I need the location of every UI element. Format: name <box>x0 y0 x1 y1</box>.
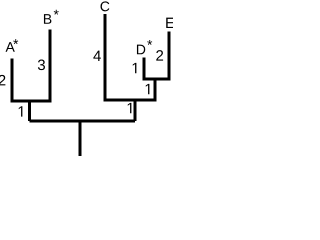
phylogenetic tree diagram ((A,B),(C,(D,E))) <box>0 0 173 156</box>
taxon label D asterisk <box>147 40 152 45</box>
taxon label B <box>44 14 51 24</box>
wire: AB stem <box>28 101 31 121</box>
wire: branch C vertical, C-DE bar, DE stem <box>105 14 155 100</box>
branch length 1 (AB stem) <box>19 106 23 116</box>
branch length 4 (branch C) <box>93 51 101 61</box>
taxon label D <box>137 45 145 55</box>
branch length 2 (branch A) <box>0 75 5 85</box>
wire: branch A vertical, AB bar, branch B vertical <box>12 30 50 102</box>
branch length 2 (branch E) <box>156 50 163 60</box>
branch length 1 (DE stem) <box>146 84 150 94</box>
wire: root stem <box>79 121 82 156</box>
wire: branch D vertical, DE bar, branch E vertical <box>144 32 169 80</box>
taxon label C <box>101 1 110 11</box>
branch length 1 (CDE stem) <box>128 103 132 113</box>
branch length 3 (branch B) <box>38 60 45 71</box>
taxon label B asterisk <box>54 10 59 15</box>
wire: root bar <box>30 120 136 123</box>
taxon label A <box>6 42 15 52</box>
branch length 1 (branch D) <box>133 63 137 73</box>
taxon label E <box>166 18 174 28</box>
wire: CDE stem <box>134 100 137 121</box>
taxon label A asterisk <box>13 39 18 44</box>
